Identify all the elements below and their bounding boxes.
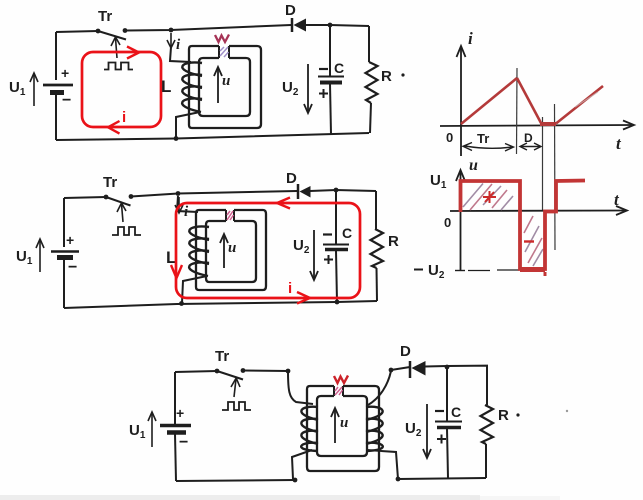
minus mark negative area graph2 xyxy=(524,240,534,242)
label U1 (circuit3 source) xyxy=(129,422,146,441)
curve i(t) graph1 xyxy=(461,78,603,124)
switch Tr3 blade xyxy=(217,371,243,380)
label u (graph2 axis) xyxy=(469,157,478,174)
svg-text:D: D xyxy=(285,2,296,19)
wire: circuit1 left vertical xyxy=(55,32,57,80)
measure arrow D graph1 xyxy=(520,131,541,150)
wire: circuit3 primary top riser xyxy=(288,371,313,404)
wire: circuit2 coil bottom to rail xyxy=(179,276,207,306)
switch Tr2 control arrow xyxy=(117,203,126,222)
svg-text:+: + xyxy=(176,405,184,421)
battery U1 circuit1 xyxy=(43,65,73,109)
svg-text:R: R xyxy=(381,68,392,85)
battery U1 circuit3 xyxy=(160,405,191,451)
wire: circuit1 top middle segment xyxy=(125,25,291,31)
arrow U2 circuit2 xyxy=(310,230,318,280)
transformer core outer xyxy=(307,386,379,471)
pulse waveform symbol circuit2 xyxy=(112,227,141,235)
wire: circuit2 left vertical xyxy=(63,198,65,247)
wire: circuit3 output bottom rail xyxy=(398,478,486,479)
node: circuit1 capacitor junction xyxy=(328,23,333,28)
svg-text:Tr: Tr xyxy=(215,348,229,365)
svg-text:+: + xyxy=(61,65,69,81)
core inner circuit1 xyxy=(199,58,250,116)
marker line D end graph1 xyxy=(554,104,557,250)
node: circuit2 bottom junction xyxy=(335,300,340,305)
svg-text:R: R xyxy=(498,407,509,424)
wire: circuit1 coil bottom to ground rail xyxy=(176,112,200,139)
diode D2 xyxy=(286,170,311,199)
label L (circuit1) xyxy=(161,77,171,96)
label U2 (circuit3) xyxy=(405,420,422,439)
wire: circuit2 top left segment xyxy=(64,197,106,198)
label i (circuit2) xyxy=(184,204,189,220)
arrow U2 circuit3 xyxy=(423,404,431,458)
axis x graph2 xyxy=(450,206,627,215)
core outer circuit2 xyxy=(196,210,266,290)
resistor R1 xyxy=(366,26,405,133)
wire: circuit2 top middle segment xyxy=(131,191,297,197)
air gap circuit2 xyxy=(226,210,234,221)
label U2 (circuit2) xyxy=(293,237,310,256)
label u (circuit1) xyxy=(222,73,230,89)
switch Tr3 contacts xyxy=(215,368,246,373)
node: circuit1 bottom junction xyxy=(174,136,179,141)
label 0 (graph2) xyxy=(444,215,451,230)
wire: circuit1 top left segment xyxy=(56,31,98,32)
pulse waveform symbol circuit1 xyxy=(104,63,133,70)
axis y graph2 xyxy=(456,170,465,271)
pulse waveform symbol circuit3 xyxy=(222,402,251,410)
label Tr (circuit1) xyxy=(98,8,112,25)
arrow U2 circuit1 xyxy=(304,64,312,113)
switch Tr1 control arrow xyxy=(111,37,120,58)
svg-text:u: u xyxy=(228,240,236,256)
svg-text:D: D xyxy=(400,343,411,360)
core outer circuit1 xyxy=(189,46,261,128)
svg-text:C: C xyxy=(342,225,352,241)
node: circuit3 output cap junction xyxy=(445,365,450,370)
capacitor C3 xyxy=(435,367,462,478)
svg-text:u: u xyxy=(222,73,230,89)
svg-text:Tr: Tr xyxy=(103,174,117,191)
hatch positive area graph2 xyxy=(463,184,513,211)
diode D3 xyxy=(400,343,426,378)
core inner circuit2 xyxy=(206,221,256,282)
red current loop circuit1 xyxy=(82,47,161,134)
node: circuit3 secondary top xyxy=(389,368,394,373)
svg-text:L: L xyxy=(161,77,171,96)
wire: circuit3 top right to primary xyxy=(243,370,288,373)
wire: circuit3 below battery xyxy=(175,434,176,481)
battery U1 circuit2 xyxy=(51,232,79,276)
svg-text:−: − xyxy=(68,259,77,276)
air gap circuit3 xyxy=(334,386,343,396)
marker line D start graph1 xyxy=(542,117,544,211)
U2 level tick and dashed line graph2 xyxy=(455,269,519,272)
wire: circuit3 bottom left rail xyxy=(176,480,295,481)
arrow U1 circuit2 xyxy=(36,239,44,272)
axis y graph1 xyxy=(457,46,466,156)
label w (red, circuit1) xyxy=(215,35,229,43)
wire: circuit3 primary bottom riser xyxy=(292,450,312,479)
wire: circuit3 secondary top riser xyxy=(368,371,391,405)
node: circuit3 output bottom junction xyxy=(396,477,401,482)
arrow U1 circuit3 xyxy=(148,412,156,447)
svg-text:i: i xyxy=(288,280,292,297)
svg-text:Tr: Tr xyxy=(477,131,489,146)
red current loop circuit2 xyxy=(171,198,360,304)
arrow i circuit2 xyxy=(175,197,183,213)
inductor L coil circuit1 xyxy=(182,62,202,112)
resistor R3 xyxy=(481,405,569,478)
svg-text:u: u xyxy=(469,157,478,174)
label Tr (circuit3) xyxy=(215,348,229,365)
marker line Tr end graph1 xyxy=(516,68,519,154)
arrow u circuit1 xyxy=(214,67,222,103)
node: circuit2 capacitor junction xyxy=(334,188,339,193)
svg-text:D: D xyxy=(286,170,297,187)
wire: circuit2 bottom xyxy=(64,301,377,308)
arrow U1 circuit1 xyxy=(30,73,38,106)
svg-text:C: C xyxy=(451,404,461,420)
switch Tr2 blade xyxy=(106,197,131,206)
label U2 (graph2) xyxy=(414,262,445,281)
air gap circuit1 xyxy=(219,46,229,58)
waveform u(t) graph2 xyxy=(461,181,586,277)
node: circuit3 primary top xyxy=(286,369,291,374)
label U1 (circuit1 source) xyxy=(9,79,26,98)
wire: circuit3 secondary bottom riser xyxy=(367,450,398,479)
diode D1 xyxy=(285,2,306,32)
label t (graph1) xyxy=(616,134,622,153)
capacitor C1 xyxy=(318,25,344,134)
svg-text:0: 0 xyxy=(444,215,451,230)
switch Tr3 control arrow xyxy=(231,378,240,397)
svg-text:0: 0 xyxy=(446,130,453,145)
wire: circuit3 secondary to diode xyxy=(391,367,410,370)
wire: circuit2 to coil top xyxy=(177,196,198,212)
wire: circuit1 bottom xyxy=(56,133,369,140)
transformer primary coil xyxy=(301,407,318,451)
resistor R2 xyxy=(371,191,400,301)
svg-text:R: R xyxy=(388,233,399,250)
axis x graph1 xyxy=(440,121,634,130)
wire: circuit1 top right after diode xyxy=(306,25,369,26)
label 0 (graph1) xyxy=(446,130,453,145)
label U2 (circuit1) xyxy=(282,79,299,98)
node: circuit1 top junction xyxy=(169,28,174,33)
measure arrow Tr graph1 xyxy=(463,131,514,151)
capacitor C2 xyxy=(323,190,352,302)
label w (red, circuit3) xyxy=(334,376,348,384)
svg-text:Tr: Tr xyxy=(98,8,112,25)
label i (circuit1) xyxy=(176,37,181,53)
wire: circuit2 below battery xyxy=(63,259,65,308)
label u (circuit2) xyxy=(228,240,236,256)
svg-text:+: + xyxy=(66,232,74,248)
label U1 (circuit2 source) xyxy=(16,248,33,267)
arrow i circuit1 xyxy=(167,33,175,48)
label u (circuit3) xyxy=(340,415,348,431)
label i (graph1 axis) xyxy=(468,29,473,48)
label Tr (circuit2) xyxy=(103,174,117,191)
svg-text:D: D xyxy=(524,131,533,145)
transformer secondary coil xyxy=(366,407,383,451)
transformer core inner xyxy=(317,396,367,456)
arrow u circuit3 xyxy=(331,408,339,443)
label t (graph2) xyxy=(614,190,620,209)
switch Tr1 contacts xyxy=(96,28,128,33)
svg-text:i: i xyxy=(122,109,126,126)
svg-text:−: − xyxy=(179,434,188,451)
switch Tr2 contacts xyxy=(104,194,134,199)
arrow u circuit2 xyxy=(220,234,228,268)
node: circuit2 top junction xyxy=(176,191,181,196)
svg-text:u: u xyxy=(340,415,348,431)
label U1 (graph2) xyxy=(430,172,447,191)
wire: circuit2 top right after diode xyxy=(310,190,376,191)
node: circuit3 primary bottom xyxy=(293,478,298,483)
switch Tr1 blade xyxy=(98,31,126,40)
svg-text:−: − xyxy=(62,92,71,109)
svg-text:i: i xyxy=(468,29,473,48)
wire: circuit3 left vertical xyxy=(174,372,176,424)
wire: circuit3 output top xyxy=(425,366,487,405)
label L (circuit2) xyxy=(166,248,176,267)
inductor L coil circuit2 xyxy=(189,226,209,276)
wire: circuit3 top left segment xyxy=(175,371,217,372)
wire: circuit1 below battery xyxy=(55,92,57,140)
plus mark positive area graph2 xyxy=(483,191,496,203)
svg-text:C: C xyxy=(334,60,344,76)
wire: circuit1 to coil top xyxy=(170,47,191,62)
bottom photo shadow xyxy=(0,495,560,500)
hatch negative area graph2 xyxy=(524,216,543,266)
